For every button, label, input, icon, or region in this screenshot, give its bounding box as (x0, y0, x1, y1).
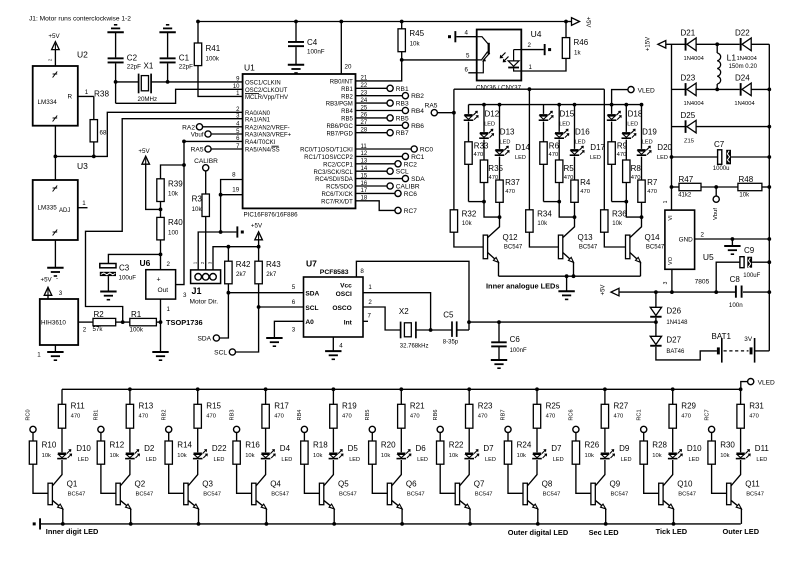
ground below C6 (491, 359, 507, 361)
svg-text:150m 0.20: 150m 0.20 (729, 64, 758, 70)
wire +5V to U2 (54, 50, 56, 66)
svg-text:R34: R34 (537, 210, 552, 219)
wire backup supply bus (469, 321, 656, 323)
svg-text:RC3/SCK/SCL: RC3/SCK/SCL (313, 170, 353, 176)
svg-text:SCL: SCL (396, 169, 409, 176)
svg-text:BC547: BC547 (746, 491, 764, 497)
resistor R11 (61, 389, 63, 404)
svg-text:2: 2 (167, 261, 171, 268)
svg-text:LED: LED (214, 457, 225, 463)
svg-text:R25: R25 (546, 401, 561, 410)
terminal RC1 (356, 155, 403, 157)
svg-text:100k: 100k (130, 327, 144, 334)
wire R45 to U4 pin 5 (402, 59, 477, 61)
svg-text:LED: LED (642, 139, 653, 145)
wire Vcc pin 8 of U7 (356, 261, 469, 330)
svg-text:D4: D4 (280, 444, 291, 453)
svg-text:5: 5 (466, 53, 470, 60)
svg-text:R28: R28 (652, 440, 667, 449)
svg-text:CALIBR: CALIBR (396, 184, 420, 191)
svg-text:C6: C6 (510, 335, 521, 344)
IC U1 PIC16F876 (243, 74, 356, 208)
resistor R29 (671, 387, 675, 391)
svg-text:19: 19 (232, 187, 239, 194)
svg-text:U1: U1 (244, 63, 255, 73)
svg-text:R13: R13 (139, 401, 154, 410)
svg-text:LED: LED (146, 457, 157, 463)
wire collector join Q14 (612, 201, 627, 203)
svg-text:+5V: +5V (251, 223, 263, 230)
diode D24 (740, 83, 742, 96)
wire INT to RB0 (356, 60, 402, 81)
svg-text:R3: R3 (192, 195, 203, 204)
svg-text:1: 1 (529, 64, 533, 71)
svg-text:D20: D20 (657, 143, 672, 152)
svg-text:R37: R37 (505, 178, 520, 187)
svg-text:470: 470 (647, 189, 657, 195)
svg-text:1N4004: 1N4004 (734, 101, 755, 107)
node R39 R40 (159, 208, 163, 212)
svg-text:LED: LED (559, 121, 570, 127)
svg-text:LED: LED (500, 139, 511, 145)
svg-text:C9: C9 (744, 246, 755, 255)
wire R28 to base of Q10 (644, 464, 659, 493)
svg-text:RC7: RC7 (404, 208, 418, 215)
svg-text:32.768kHz: 32.768kHz (400, 343, 429, 349)
svg-text:R1: R1 (131, 310, 142, 319)
ground below HIH3610 (47, 351, 63, 353)
svg-text:41k2: 41k2 (678, 192, 692, 198)
wire collector join Q13 (544, 201, 560, 203)
LED D11 (740, 428, 742, 452)
svg-text:LM335: LM335 (38, 205, 58, 212)
pin 1 ADJ stub of U3 (78, 207, 88, 209)
terminal RB1 (356, 87, 388, 89)
svg-text:RA0/AN0: RA0/AN0 (245, 111, 271, 117)
terminal RB6 (356, 124, 403, 126)
capacitor C3 (108, 254, 160, 263)
svg-text:R31: R31 (749, 401, 764, 410)
svg-text:R46: R46 (574, 38, 589, 47)
ground below U5 pin 2 (731, 239, 733, 246)
svg-text:R47: R47 (679, 175, 694, 184)
capacitor C5 (451, 321, 453, 337)
svg-text:2: 2 (701, 232, 705, 239)
svg-text:RB6: RB6 (411, 123, 424, 130)
svg-text:10k: 10k (585, 453, 594, 459)
svg-text:RB7: RB7 (396, 130, 409, 137)
transistor Q6 (392, 460, 402, 486)
svg-text:BC547: BC547 (271, 491, 289, 497)
terminal RB5 (356, 117, 388, 119)
svg-text:3: 3 (292, 327, 296, 334)
svg-text:RA3/AN3/VREF+: RA3/AN3/VREF+ (245, 133, 292, 139)
svg-text:D26: D26 (666, 307, 681, 316)
resistor R31 (739, 387, 743, 391)
svg-text:R36: R36 (612, 210, 627, 219)
svg-text:OSC1/CLKIN: OSC1/CLKIN (245, 81, 281, 87)
svg-text:BAT46: BAT46 (666, 349, 685, 355)
resistor R39 (161, 165, 185, 179)
resistor R43 (258, 247, 260, 262)
capacitor C9 (716, 262, 740, 292)
wire R30 to base of Q11 (712, 464, 727, 493)
capacitor C1 (167, 32, 169, 57)
svg-text:R2: R2 (94, 310, 105, 319)
svg-text:8: 8 (232, 172, 236, 179)
resistor R21 (399, 387, 403, 391)
wire R34 to base of Q13 (529, 232, 558, 247)
svg-text:Q2: Q2 (135, 479, 146, 488)
svg-text:10k: 10k (462, 221, 473, 227)
connector J1 (191, 270, 221, 284)
wire C2 to OSC2 net (115, 63, 117, 103)
svg-text:R20: R20 (381, 440, 396, 449)
svg-text:470: 470 (342, 414, 352, 420)
svg-text:R23: R23 (478, 401, 493, 410)
svg-text:L1: L1 (727, 53, 737, 63)
svg-text:Q1: Q1 (67, 479, 78, 488)
terminal Vbuf (715, 187, 717, 196)
pin 1 of U6 to ground (160, 299, 162, 351)
resistor R12 (97, 441, 104, 464)
svg-text:Q12: Q12 (503, 233, 519, 242)
svg-text:D10: D10 (687, 444, 702, 453)
svg-text:470: 470 (505, 189, 515, 195)
LED D13 (482, 103, 486, 107)
svg-text:1: 1 (85, 89, 89, 96)
wire battery to right rail (755, 350, 770, 352)
svg-text:C1: C1 (179, 54, 190, 63)
wire SDA net (220, 284, 229, 338)
svg-text:100uF: 100uF (119, 275, 137, 282)
svg-text:R16: R16 (245, 440, 260, 449)
pin 4 of U7 to ground (332, 337, 334, 351)
wire right rail (768, 44, 770, 351)
svg-text:D23: D23 (681, 74, 696, 83)
svg-text:10k: 10k (381, 453, 390, 459)
ground below U7 (325, 350, 341, 352)
svg-text:VO: VO (668, 256, 674, 265)
svg-text:470: 470 (206, 414, 216, 420)
LED D12 (468, 105, 470, 114)
wire RA4 T0CKI net (184, 140, 243, 142)
svg-text:1000u: 1000u (713, 166, 730, 172)
terminal SCL (356, 170, 388, 172)
offboard terminal bottom left (39, 518, 41, 529)
svg-text:D7: D7 (483, 444, 494, 453)
capacitor C4 (294, 20, 298, 24)
svg-text:RB1: RB1 (341, 87, 353, 93)
svg-text:Q9: Q9 (610, 479, 621, 488)
svg-text:VLED: VLED (638, 87, 655, 94)
diode D22 (740, 38, 742, 51)
svg-text:RA2: RA2 (182, 124, 195, 131)
svg-text:Out: Out (158, 287, 169, 294)
svg-text:4: 4 (339, 343, 343, 350)
svg-text:CNY36 / CNY37: CNY36 / CNY37 (476, 84, 522, 91)
svg-text:OSCO: OSCO (332, 305, 351, 312)
svg-text:2: 2 (83, 327, 87, 334)
resistor R2 (93, 318, 116, 325)
resistor R28 (640, 441, 647, 464)
emitter of Q8 (527, 500, 538, 509)
resistor R48 (738, 183, 762, 190)
resistor R30 (708, 441, 715, 464)
wire X1 left (116, 81, 139, 83)
wire U3 to ground (54, 240, 56, 267)
diode D21 (672, 43, 686, 45)
svg-text:SCL: SCL (214, 350, 227, 357)
emitter of Q1 (52, 500, 63, 509)
svg-text:D14: D14 (515, 143, 530, 152)
svg-text:RC7/RX/DT: RC7/RX/DT (321, 199, 353, 205)
svg-text:RB4: RB4 (297, 410, 303, 421)
power +5V right of rail (566, 21, 572, 23)
svg-text:CALIBR: CALIBR (194, 158, 218, 165)
capacitor C2 (115, 32, 117, 57)
svg-text:Q6: Q6 (406, 479, 417, 488)
wire OSC2 net (116, 89, 243, 103)
svg-text:BC547: BC547 (203, 491, 221, 497)
svg-text:470: 470 (614, 414, 624, 420)
wire R14 to base of Q3 (169, 464, 184, 493)
svg-text:R43: R43 (266, 260, 281, 269)
svg-text:LED: LED (575, 139, 586, 145)
svg-text:R11: R11 (71, 401, 86, 410)
resistor R32 (450, 210, 457, 232)
wire left rail to U5 (671, 44, 673, 210)
svg-text:470: 470 (71, 414, 81, 420)
node R38 bottom (92, 155, 96, 159)
svg-text:HIH3610: HIH3610 (41, 320, 66, 327)
resistor R15 (196, 387, 200, 391)
svg-text:-: - (56, 275, 58, 282)
svg-text:Q8: Q8 (542, 479, 553, 488)
svg-text:R5: R5 (564, 164, 575, 173)
svg-text:10k: 10k (192, 206, 203, 213)
svg-text:10k: 10k (313, 453, 322, 459)
svg-text:C4: C4 (307, 38, 318, 47)
svg-text:R39: R39 (168, 180, 183, 189)
svg-text:Outer digital LED: Outer digital LED (508, 528, 569, 537)
svg-text:BC547: BC547 (136, 491, 154, 497)
svg-text:RB3: RB3 (396, 101, 409, 108)
IR LED inside U4 (514, 49, 522, 51)
pin 3 VO of U5 (671, 269, 673, 292)
svg-text:SCL: SCL (305, 305, 318, 312)
svg-text:3: 3 (59, 290, 63, 297)
wire U4 pin 1 to R46 (521, 58, 566, 71)
terminal VLED analogue (628, 87, 634, 93)
transistor Q11 (731, 460, 741, 486)
svg-text:U4: U4 (531, 29, 542, 39)
svg-text:6: 6 (465, 67, 469, 74)
zener diode D25 (672, 126, 686, 128)
resistor R13 (128, 387, 132, 391)
wire OSCO pin 2 of U7 (363, 307, 401, 330)
svg-text:Q10: Q10 (677, 479, 693, 488)
svg-text:RC4/SDI/SDA: RC4/SDI/SDA (315, 177, 353, 183)
svg-text:A0: A0 (305, 319, 314, 326)
svg-text:R41: R41 (206, 44, 221, 53)
wire OSC1 net (151, 81, 243, 83)
svg-text:RA1/AN1: RA1/AN1 (245, 117, 271, 123)
svg-text:R33: R33 (474, 141, 489, 150)
transistor Q12 (483, 235, 487, 259)
terminal RB2 (356, 95, 403, 97)
svg-text:RB7: RB7 (501, 410, 507, 421)
svg-text:100nF: 100nF (510, 348, 527, 354)
LED D15 (543, 105, 545, 114)
wire R26 to base of Q9 (576, 464, 591, 493)
svg-text:+5V: +5V (138, 148, 150, 155)
terminal CALIBR (356, 185, 388, 187)
svg-text:Tick LED: Tick LED (656, 527, 688, 536)
svg-text:Vbuf: Vbuf (191, 132, 204, 139)
wire R41 to MCLR (198, 66, 243, 97)
transistor Q5 (324, 460, 334, 486)
svg-text:C8: C8 (730, 275, 741, 284)
pin 6 stub of U4 (468, 72, 476, 74)
svg-text:BAT1: BAT1 (712, 332, 732, 341)
svg-text:+5V: +5V (41, 277, 53, 284)
svg-text:RB2: RB2 (411, 93, 424, 100)
svg-text:RC7: RC7 (704, 409, 710, 420)
svg-text:10k: 10k (739, 193, 750, 199)
phototransistor inside U4 (488, 43, 490, 55)
svg-text:RB5: RB5 (341, 117, 353, 123)
emitter of Q7 (460, 500, 471, 509)
svg-text:2k7: 2k7 (236, 271, 247, 278)
svg-text:LED: LED (553, 457, 564, 463)
transistor Q9 (595, 460, 605, 486)
power +5V HIH3610 (44, 287, 52, 295)
resistor R25 (535, 387, 539, 391)
svg-text:D16: D16 (575, 127, 590, 136)
svg-text:U5: U5 (703, 252, 714, 262)
svg-text:LED: LED (417, 457, 428, 463)
emitter of Q9 (595, 500, 606, 509)
wire D27 to battery (656, 347, 717, 360)
svg-text:U3: U3 (77, 161, 88, 171)
LED D7 (536, 428, 538, 452)
svg-text:RC0: RC0 (26, 409, 32, 420)
wire R32 to base of Q12 (454, 232, 483, 247)
svg-text:BC547: BC547 (611, 491, 629, 497)
pin 1 R of U2 (78, 95, 94, 97)
svg-text:RC2/CCP1: RC2/CCP1 (323, 162, 353, 168)
node battery backup (654, 320, 658, 324)
svg-text:R7: R7 (647, 178, 658, 187)
svg-text:1: 1 (663, 200, 669, 203)
terminal SCL (229, 349, 235, 355)
svg-text:Q5: Q5 (338, 479, 349, 488)
transistor Q8 (527, 460, 537, 486)
transistor Q10 (663, 460, 673, 486)
resistor R8 (625, 140, 627, 160)
svg-text:+5V: +5V (600, 285, 606, 296)
svg-text:7805: 7805 (695, 278, 710, 285)
svg-text:5: 5 (292, 284, 296, 291)
svg-text:100uF: 100uF (743, 273, 760, 279)
svg-text:D27: D27 (666, 336, 681, 345)
svg-text:D18: D18 (628, 109, 643, 118)
svg-text:10k: 10k (245, 453, 254, 459)
resistor R23 (467, 387, 471, 391)
svg-text:R32: R32 (462, 210, 477, 219)
IC U3 LM335 (33, 180, 78, 240)
svg-text:OSC2/CLKOUT: OSC2/CLKOUT (245, 88, 288, 94)
svg-text:RC1: RC1 (636, 409, 642, 420)
crystal X2 (400, 322, 402, 339)
svg-text:RC6: RC6 (404, 191, 418, 198)
svg-text:2: 2 (528, 42, 532, 49)
svg-text:68: 68 (100, 130, 107, 137)
light arrows inside U4 (501, 53, 506, 58)
terminal RB3 (356, 102, 388, 104)
ground below U6 (152, 351, 168, 353)
IC U7 PCF8583 (304, 277, 364, 337)
svg-text:470: 470 (410, 414, 420, 420)
svg-text:R22: R22 (449, 440, 464, 449)
LED D9 (604, 428, 606, 452)
LED D19 (624, 103, 628, 107)
svg-text:2: 2 (48, 58, 53, 61)
transistor Q3 (188, 460, 198, 486)
emitter of Q14 (630, 253, 641, 263)
resistor R6 (543, 122, 545, 142)
transistor Q7 (460, 460, 470, 486)
ground above C1 (159, 31, 175, 33)
svg-text:LED: LED (590, 155, 601, 161)
emitter of Q13 (563, 253, 574, 263)
emitter of Q11 (731, 500, 742, 509)
svg-text:VI: VI (668, 215, 674, 221)
wire R3 to J1 pin 2 (205, 217, 207, 274)
resistor R17 (264, 387, 268, 391)
wire OSCI pin 1 of U7 (363, 293, 431, 330)
svg-text:3: 3 (183, 292, 187, 299)
svg-text:RB3/PGM: RB3/PGM (326, 102, 353, 108)
resistor R9 (611, 122, 613, 142)
svg-text:RC6/TX/CK: RC6/TX/CK (321, 192, 352, 198)
svg-text:10k: 10k (410, 41, 421, 48)
resistor R34 (526, 210, 533, 232)
svg-text:100nF: 100nF (307, 49, 325, 56)
svg-text:D25: D25 (681, 111, 696, 120)
svg-text:R4: R4 (580, 178, 591, 187)
wire top +5V rail (198, 21, 566, 23)
svg-text:1: 1 (82, 200, 86, 207)
svg-text:LED: LED (281, 457, 292, 463)
wire +5V feed to J1 pin 3 (213, 247, 259, 274)
svg-text:22pF: 22pF (179, 64, 193, 71)
svg-text:10k: 10k (168, 191, 179, 198)
ground above C2 (107, 31, 123, 33)
svg-text:RA5: RA5 (425, 102, 438, 109)
svg-text:10k: 10k (177, 453, 186, 459)
svg-text:10: 10 (233, 84, 240, 90)
svg-text:10k: 10k (652, 453, 661, 459)
LED D7 (468, 428, 470, 452)
LED D6 (400, 428, 402, 452)
wire base drive bus (454, 88, 604, 90)
resistor R40 (160, 202, 162, 218)
svg-text:1N4148: 1N4148 (666, 320, 688, 326)
resistor R19 (332, 387, 336, 391)
resistor R22 (437, 441, 444, 464)
